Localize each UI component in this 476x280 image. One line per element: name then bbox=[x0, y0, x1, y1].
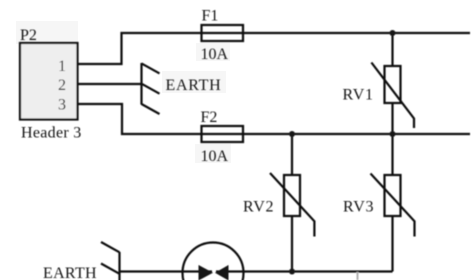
svg-text:1: 1 bbox=[58, 58, 66, 75]
svg-text:RV2: RV2 bbox=[243, 199, 274, 216]
svg-text:EARTH: EARTH bbox=[166, 77, 222, 94]
svg-text:EARTH: EARTH bbox=[43, 265, 97, 280]
svg-text:F2: F2 bbox=[201, 109, 218, 126]
svg-text:10A: 10A bbox=[201, 46, 229, 63]
svg-text:3: 3 bbox=[58, 97, 66, 114]
svg-text:RV3: RV3 bbox=[343, 199, 374, 216]
svg-text:Header 3: Header 3 bbox=[21, 125, 82, 142]
svg-text:F1: F1 bbox=[202, 8, 219, 25]
svg-text:P2: P2 bbox=[20, 27, 37, 44]
svg-text:10A: 10A bbox=[201, 148, 229, 165]
svg-text:RV1: RV1 bbox=[343, 87, 374, 104]
svg-text:2: 2 bbox=[58, 77, 66, 94]
